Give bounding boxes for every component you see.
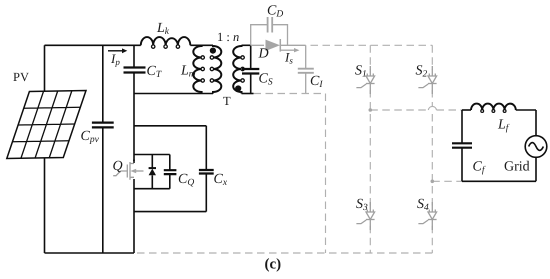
switch S4 (418, 202, 436, 230)
svg-text:(c): (c) (265, 257, 282, 273)
wire: CQ clamp box top rail (134, 154, 170, 156)
diode D (266, 39, 281, 52)
current arrow Is (281, 48, 300, 52)
label Grid (504, 160, 530, 175)
current arrow Ip (108, 48, 127, 53)
inductor Lm (magnetizing) (193, 45, 204, 93)
capacitor Cf on filter box left edge (452, 110, 472, 181)
label CS (259, 72, 273, 88)
label Cx (214, 172, 228, 188)
label D (258, 47, 269, 62)
capacitor CI (298, 45, 314, 93)
wire: Q drain/source black verticals (133, 155, 135, 254)
label Ip (110, 51, 120, 67)
node: phase junction B (431, 180, 435, 184)
wire: CT / main primary vertical (133, 45, 135, 163)
label Cf (473, 160, 486, 176)
label PV (13, 70, 29, 84)
wire: secondary top lead (242, 44, 251, 46)
label T (223, 94, 231, 108)
label CD (267, 4, 283, 20)
label S2 (416, 64, 428, 80)
capacitor Cx (199, 126, 214, 212)
wire: diode branch (gray) (251, 44, 264, 46)
label Q (113, 159, 123, 174)
svg-text:Grid: Grid (504, 160, 530, 175)
label S4 (417, 197, 429, 213)
svg-text:T: T (223, 94, 231, 108)
wire: dashed top rail (311, 44, 433, 46)
label Lm (180, 64, 196, 80)
wire: dashed secondary return rail (254, 94, 326, 254)
label CI (310, 74, 323, 90)
svg-text:PV: PV (13, 70, 29, 84)
wire: CQ clamp box bottom rail (134, 188, 170, 190)
wire: dashed bottom rail (137, 252, 432, 254)
label Lf (497, 118, 510, 134)
svg-text:1 : n: 1 : n (217, 30, 239, 44)
label (c) (265, 257, 282, 273)
label 1:n (217, 30, 239, 44)
svg-text:D: D (258, 47, 269, 62)
switch S3 (356, 202, 374, 230)
label CQ (178, 172, 194, 188)
transformer T primary winding (210, 45, 221, 93)
wire: filter box bottom edge (462, 180, 536, 182)
label Lk (156, 21, 170, 37)
diode (body diode of Q) (149, 155, 156, 189)
wire: left vertical (PV branch) (44, 45, 46, 253)
switch S2 (418, 66, 436, 94)
PV panel (7, 91, 86, 159)
svg-text:Q: Q (113, 159, 123, 174)
wire: phase rail A (left leg to filter top) with hop (370, 106, 462, 110)
label S1 (355, 64, 367, 80)
transistor Q (MOSFET, gray symbol) (113, 162, 143, 180)
grid filter box: top edge with Lf (462, 104, 536, 113)
transformer secondary dot (235, 85, 241, 91)
node: phase junction A (369, 108, 373, 112)
wire: bottom rail primary side (45, 252, 135, 254)
snubber capacitor CD loop (251, 17, 288, 45)
label Cpv (81, 129, 100, 145)
wire: Cx branch top rail (134, 125, 206, 127)
wire: Cx branch bottom rail (134, 211, 206, 213)
capacitor Cpv (92, 45, 114, 253)
capacitor CT (124, 68, 146, 73)
wire: H-bridge left leg (369, 45, 371, 253)
label S3 (356, 197, 368, 213)
capacitor CQ (164, 155, 177, 189)
wire: bottom rail of Lm/primary to main vertical (134, 93, 213, 95)
label CT (147, 64, 162, 80)
wire: secondary bottom lead (242, 93, 254, 95)
AC source Grid (525, 110, 547, 181)
switch S1 (356, 66, 374, 94)
transformer primary dot (210, 48, 216, 54)
capacitor CS (242, 45, 259, 93)
wire: top rail primary side (45, 44, 214, 46)
label Is (284, 50, 293, 66)
inductor Lk (141, 37, 191, 48)
transformer T secondary winding (233, 45, 244, 93)
wire: phase rail B (right leg to filter bottom) (432, 180, 462, 182)
wire: diode cathode to CI corner (280, 44, 305, 46)
wire: H-bridge right leg (431, 45, 433, 253)
